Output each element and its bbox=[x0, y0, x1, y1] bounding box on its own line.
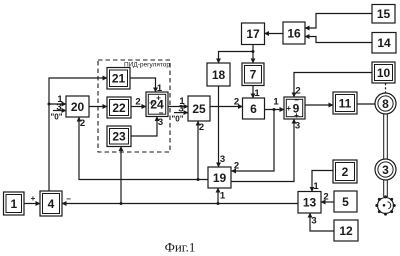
svg-text:23: 23 bbox=[112, 130, 126, 144]
pump wavy circle bbox=[375, 195, 395, 215]
svg-text:4: 4 bbox=[48, 197, 55, 211]
svg-text:18: 18 bbox=[212, 68, 226, 82]
svg-text:3: 3 bbox=[382, 163, 389, 177]
block 19 bbox=[208, 167, 231, 188]
wire 12 to 13 input 3 bbox=[310, 213, 334, 231]
shaft 3 to pump bbox=[384, 180, 388, 197]
wire 25 to 6 input 2 bbox=[210, 97, 243, 108]
block 2 bbox=[333, 160, 357, 183]
svg-text:+: + bbox=[149, 99, 154, 108]
block 10 bbox=[372, 62, 395, 83]
wire 16 to 17 bbox=[265, 33, 284, 35]
block 1 bbox=[4, 192, 25, 215]
wire up to 23 input bbox=[120, 147, 122, 204]
wire 22 to 24 input 2 bbox=[131, 97, 146, 108]
svg-text:2: 2 bbox=[234, 97, 239, 108]
svg-text:17: 17 bbox=[246, 27, 260, 41]
svg-text:21: 21 bbox=[112, 72, 126, 86]
svg-text:2: 2 bbox=[199, 122, 204, 133]
block 4 bbox=[40, 191, 62, 216]
wire 11 to 8 bbox=[357, 103, 375, 105]
block 20 bbox=[66, 96, 89, 117]
junction at 198,179.5 bbox=[197, 178, 200, 181]
junction at 49,104 bbox=[48, 103, 51, 106]
block 7 bbox=[242, 63, 264, 86]
svg-text:11: 11 bbox=[339, 96, 352, 110]
block 16 bbox=[283, 22, 305, 44]
shaft 8 to 3 bbox=[384, 114, 388, 159]
circle 3 bbox=[375, 159, 396, 180]
wire 21 to 24 input 1 bbox=[130, 78, 163, 94]
junction at 274,109.5 bbox=[273, 108, 276, 111]
block 22 bbox=[107, 97, 131, 118]
wire 18 to 19 input 3 bbox=[219, 86, 226, 167]
wire up to 25 input 2 bbox=[198, 121, 204, 180]
wire 4 output up bbox=[49, 78, 107, 191]
svg-text:+: + bbox=[294, 111, 299, 120]
junction at 121 bottom bbox=[120, 202, 123, 205]
svg-text:3: 3 bbox=[178, 104, 183, 115]
svg-text:3: 3 bbox=[158, 117, 163, 128]
wire 10 to 9 input 2 bbox=[294, 73, 372, 98]
svg-text:8: 8 bbox=[382, 97, 389, 111]
wire branch to 18 bbox=[219, 52, 254, 64]
block 12 bbox=[334, 220, 358, 241]
svg-text:20: 20 bbox=[71, 100, 85, 114]
wire 6 branch to 19 input 2 bbox=[232, 110, 275, 172]
svg-text:"0": "0" bbox=[50, 113, 62, 122]
svg-text:+: + bbox=[31, 194, 36, 203]
svg-text:Фиг.1: Фиг.1 bbox=[165, 240, 196, 255]
svg-text:16: 16 bbox=[287, 26, 301, 40]
svg-text:2: 2 bbox=[295, 86, 300, 97]
block 24 summing bbox=[146, 92, 168, 118]
wire 5 to 13 input 2 bbox=[321, 192, 334, 203]
dashed wire 10 to 8 bbox=[385, 83, 387, 93]
wire up to 19 input 1 bbox=[218, 188, 226, 204]
svg-text:1: 1 bbox=[313, 181, 319, 192]
svg-text:1: 1 bbox=[157, 83, 163, 94]
wire 2 to 13 input 1 bbox=[312, 171, 333, 193]
junction at 218 bottom bbox=[217, 202, 220, 205]
svg-text:+: + bbox=[156, 94, 161, 103]
block 6 bbox=[243, 98, 265, 119]
dashed box PID regulator bbox=[98, 60, 170, 152]
svg-text:ПИД-регулятор: ПИД-регулятор bbox=[124, 62, 170, 69]
wire zero to 20 input 3 bbox=[50, 102, 66, 122]
svg-text:13: 13 bbox=[303, 196, 317, 210]
block 15 bbox=[372, 5, 395, 24]
svg-text:1: 1 bbox=[10, 197, 17, 211]
svg-text:−: − bbox=[66, 195, 71, 204]
svg-text:1: 1 bbox=[273, 97, 279, 108]
svg-text:5: 5 bbox=[342, 195, 349, 209]
svg-text:15: 15 bbox=[377, 7, 391, 21]
svg-text:1: 1 bbox=[254, 88, 260, 99]
wire 19 to 9 input 3 bbox=[231, 119, 300, 182]
motor circle 8 bbox=[375, 93, 396, 114]
wire zero to 25 input 3 bbox=[171, 104, 188, 124]
wire to 20 input 1 bbox=[49, 94, 66, 105]
wire 20 to 22 bbox=[89, 106, 107, 108]
svg-text:10: 10 bbox=[377, 66, 391, 80]
block 18 bbox=[207, 63, 230, 86]
svg-text:2: 2 bbox=[80, 118, 85, 129]
svg-text:19: 19 bbox=[213, 171, 227, 185]
svg-text:2: 2 bbox=[135, 97, 140, 108]
svg-text:3: 3 bbox=[56, 102, 61, 113]
svg-text:2: 2 bbox=[323, 192, 328, 203]
wire 24 to 25 input 1 bbox=[168, 96, 188, 107]
block 21 bbox=[107, 68, 130, 90]
svg-text:"0": "0" bbox=[171, 115, 183, 124]
block 9 summing bbox=[284, 96, 305, 121]
svg-text:1: 1 bbox=[220, 191, 226, 202]
svg-text:7: 7 bbox=[250, 68, 257, 82]
wire 23 to 24 input 3 bbox=[131, 117, 163, 137]
svg-text:14: 14 bbox=[377, 36, 391, 50]
svg-text:22: 22 bbox=[112, 101, 126, 115]
wire 1 to 4 plus bbox=[24, 194, 40, 204]
block 17 bbox=[242, 23, 265, 45]
junction at 253,51.5 bbox=[252, 50, 255, 53]
svg-text:−: − bbox=[294, 96, 299, 105]
block 23 bbox=[107, 126, 131, 147]
svg-text:3: 3 bbox=[220, 154, 225, 165]
block 25 bbox=[188, 96, 210, 121]
wire 9 to 11 bbox=[305, 104, 333, 106]
svg-text:25: 25 bbox=[192, 102, 206, 116]
svg-text:2: 2 bbox=[234, 161, 239, 172]
svg-text:3: 3 bbox=[295, 121, 300, 132]
block 11 bbox=[333, 92, 357, 114]
wire 17 down to 7 bbox=[252, 45, 254, 64]
svg-text:2: 2 bbox=[342, 165, 349, 179]
block 13 bbox=[298, 192, 321, 214]
block 14 bbox=[372, 33, 396, 54]
svg-text:6: 6 bbox=[250, 102, 257, 116]
wire 6 to 9 input 1 bbox=[265, 97, 285, 110]
wire 19 left to 20 input 2 bbox=[79, 117, 208, 180]
block 5 bbox=[334, 191, 357, 212]
wire 7 to 6 input 1 bbox=[253, 86, 260, 100]
svg-text:+: + bbox=[286, 104, 291, 113]
wire 13 to 4 long bottom minus bbox=[62, 195, 298, 204]
wire 15 to 16 bbox=[305, 14, 372, 29]
svg-text:3: 3 bbox=[311, 216, 316, 227]
svg-text:12: 12 bbox=[339, 224, 353, 238]
wire 14 to 16 bbox=[305, 37, 372, 43]
